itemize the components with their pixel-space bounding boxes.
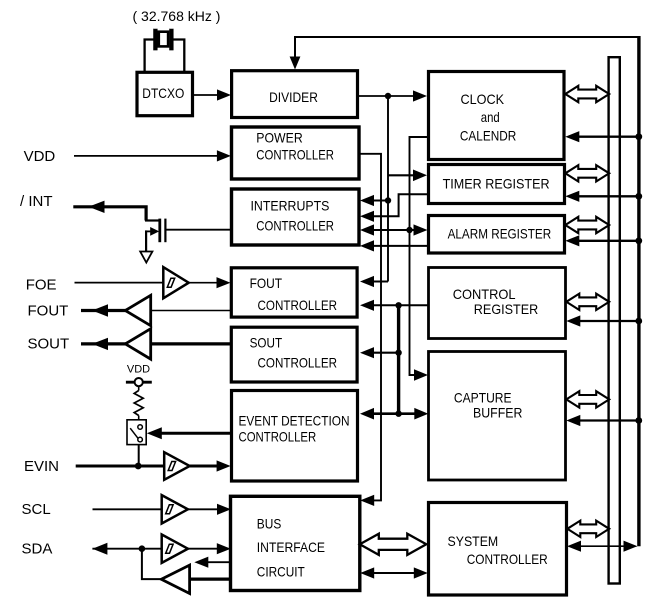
clock and calendar box [429,72,565,160]
dblarrow capture-bus [566,391,609,407]
svg-text:BUS: BUS [257,516,282,532]
VDD circle [135,378,143,386]
svg-text:CAPTURE: CAPTURE [454,389,512,405]
svg-text:CALENDR: CALENDR [460,128,516,144]
arrow SDA out [92,543,107,555]
buffer EVIN input [164,452,190,480]
wire timer to interrupts step [373,194,429,216]
svg-text:FOUT: FOUT [250,275,283,291]
node interrupts src1 [385,197,391,203]
node FOUT branch [395,302,401,308]
svg-text:VDD: VDD [24,148,56,165]
buffer SCL input [162,495,188,523]
wire SDA buffer out [188,548,217,550]
arrow into divider left [217,89,231,100]
FOUT controller box [231,268,357,317]
arrow into interrupts 1 [360,195,374,206]
wire line B divider branch [387,96,389,282]
wire VDD circle to resistor [138,386,140,390]
svg-text:SDA: SDA [22,541,53,558]
crystal X1 right plate [169,29,173,51]
wire FOE buffer to FOUT controller [189,282,217,284]
svg-text:TIMER REGISTER: TIMER REGISTER [443,176,550,192]
wire SDA driver enable [208,561,232,563]
svg-text:CLOCK: CLOCK [461,91,505,107]
wire EVIN line [76,465,165,468]
transistor Q1 gate bar [164,219,166,243]
wire resistor to switch [138,416,140,420]
svg-text:REGISTER: REGISTER [474,301,539,317]
wire divider feedback [295,37,639,57]
wire switch to EVIN node [138,445,140,466]
wire SOUT controller to buffer [151,342,232,345]
wire SCL buffer out [188,508,217,510]
switch SW1 lever [130,428,138,438]
wire timer write line [578,195,639,197]
wire control write line [579,320,639,322]
svg-text:( 32.768 kHz ): ( 32.768 kHz ) [133,8,221,24]
node rail clock [635,133,642,140]
arrow into interrupts 4 [360,240,374,251]
control register box [429,268,566,339]
divider box [232,71,358,118]
node alarm bidir [406,227,412,233]
svg-text:CONTROLLER: CONTROLLER [258,297,338,313]
arrow into clock [413,90,427,101]
wire SDA driver to node [142,549,162,579]
oscillator DTCXO box [137,72,193,115]
svg-text:FOE: FOE [26,276,57,293]
dblarrow timer-bus [565,165,609,181]
arrow into system left [414,567,428,578]
SOUT controller box [231,327,357,382]
arrow into alarm register [414,224,428,235]
crystal X1 body [159,32,168,47]
arrow into switch [147,427,162,439]
switch SW1 box [127,420,146,445]
ground symbol [140,252,152,263]
svg-text:DTCXO: DTCXO [142,85,184,101]
svg-text:CONTROLLER: CONTROLLER [256,146,334,162]
wire DTCXO to divider [193,94,218,96]
wire businterface-system thin bidir [373,572,415,574]
arrow into timer register [413,170,427,182]
svg-text:INTERRUPTS: INTERRUPTS [251,197,330,213]
crystal X1 left plate [153,29,157,51]
dblarrow clock-bus [565,86,609,102]
wire timer clock input [388,174,414,176]
power controller box [232,127,360,179]
wire alarm-interrupts bidir [373,229,415,231]
node divider output [385,93,391,99]
buffer FOE input [163,267,188,298]
svg-text:SOUT: SOUT [28,336,70,353]
svg-text:CONTROLLER: CONTROLLER [258,355,338,371]
wire alarm to interrupts [373,245,429,247]
wire [217,508,218,510]
svg-text:and: and [481,109,500,125]
wire FOUT controller to buffer [151,310,232,312]
arrow into power controller [217,150,231,161]
interrupts controller box [232,189,360,245]
arrow into capture buffer clk [414,369,428,381]
svg-text:POWER: POWER [256,129,302,145]
svg-text:DIVIDER: DIVIDER [269,89,318,105]
svg-text:CONTROL: CONTROL [453,286,516,302]
node SOUT branch [395,350,401,356]
svg-text:/ INT: / INT [20,193,53,210]
wire right rail [637,36,640,546]
VDD rail bar [126,381,152,384]
node event-capture [395,411,401,417]
wire control to FOUT controller [373,304,429,306]
transistor Q1 body arrow [146,230,151,232]
dblarrow businterface-system [360,534,427,555]
arrow SOUT out [92,338,108,350]
buffer FOUT output [125,295,150,325]
wire SCL line [93,508,162,510]
wire thick branch line [397,305,400,413]
bus line [609,57,620,583]
arrow into bus interface power [360,495,374,506]
wire capture write line [579,419,639,421]
arrow into event detection [217,460,231,471]
wire alarm write line [578,240,639,242]
wire [217,94,218,96]
wire clock line C [410,137,429,375]
svg-text:CIRCUIT: CIRCUIT [257,564,305,580]
wire crystal right lead [172,40,185,73]
wire divider branch to FOUT controller [373,281,388,283]
arrow FOUT out [92,304,108,316]
svg-text:BUFFER: BUFFER [473,405,522,421]
node rail alarm [635,237,642,244]
arrow into FOUT controller 1 [360,276,374,287]
resistor R1 zigzag [134,391,143,416]
arrow into event detection [360,408,374,420]
svg-text:VDD: VDD [127,363,150,375]
arrow into control right [566,315,580,326]
arrow into bus interface SCL [217,504,231,515]
arrow into FOUT controller [217,277,231,288]
dblarrow control-bus [566,294,609,310]
wire crystal left lead [145,40,156,73]
wire VDD line [74,155,218,157]
svg-text:CONTROLLER: CONTROLLER [239,428,317,444]
svg-text:ALARM REGISTER: ALARM REGISTER [448,225,552,241]
svg-text:EVENT DETECTION: EVENT DETECTION [239,412,350,428]
arrow into capture buffer [414,408,428,420]
transistor Q1 channel bar [158,219,161,243]
system controller box [429,503,567,596]
arrow into timer right [565,191,579,202]
wire bus interface to SDA driver [190,577,233,580]
node rail timer [635,193,642,200]
capture buffer box [429,352,566,481]
wire SOUT pin line [81,342,126,345]
arrow into FOUT controller 2 [360,300,374,311]
wire FOE line [75,282,164,284]
wire /INT line [73,207,146,221]
wire interrupts input1 [373,200,388,202]
wire [217,548,218,550]
wire power controller output line A [359,154,381,501]
transistor Q1 source [145,230,147,251]
wire divider output [358,95,415,97]
arrow into bus interface SDA [217,543,231,554]
wire [217,282,218,284]
switch SW1 bottom contact [138,437,143,442]
alarm register box [429,216,565,254]
arrow into SDA driver enable [194,557,208,568]
arrow into rail [624,541,638,552]
wire Q1 gate to interrupts controller [165,229,231,231]
wire clock write line [578,136,639,138]
buffer SDA output driver [161,565,189,593]
arrow into alarm right [565,235,579,246]
wire to SOUT controller [373,352,399,354]
dblarrow system-bus [567,521,609,537]
buffer SOUT output [125,329,150,359]
svg-text:EVIN: EVIN [24,458,59,475]
arrow into clock right [565,131,579,142]
buffer SDA input [162,535,188,563]
wire [414,174,415,176]
dblarrow alarm-bus [565,217,609,233]
svg-text:CONTROLLER: CONTROLLER [256,218,334,234]
wire FOUT pin line [81,309,126,312]
bus interface circuit box [231,496,360,590]
svg-text:INTERFACE: INTERFACE [257,539,325,555]
svg-text:SCL: SCL [22,501,51,518]
arrow into interrupts 2 [360,211,374,222]
arrow into divider top [290,57,301,70]
transistor Q1 drain [145,219,160,221]
arrow /INT out [89,201,105,213]
wire event detection to switch [160,432,232,435]
wire EVIN buffer out [190,465,217,468]
node EVIN junction [135,463,142,470]
arrow into bus interface sys [360,567,374,578]
arrow into SOUT controller [360,347,374,358]
svg-text:CONTROLLER: CONTROLLER [467,551,548,567]
arrow into system right [567,541,581,552]
switch SW1 top contact [138,425,143,430]
wire SDA line [92,548,161,550]
svg-text:SYSTEM: SYSTEM [448,533,499,549]
timer register box [429,165,565,204]
node SDA junction [139,545,146,552]
wire system rail bidir [580,545,625,547]
event detection controller box [232,391,358,482]
node rail control [635,318,642,325]
wire [218,155,219,157]
wire [217,465,218,468]
svg-text:SOUT: SOUT [250,334,283,350]
arrow into capture right [566,415,580,426]
node rail capture [635,417,642,424]
wire event-capture bidir [373,412,415,415]
arrow into interrupts 3 [360,224,374,235]
svg-text:FOUT: FOUT [28,302,69,319]
